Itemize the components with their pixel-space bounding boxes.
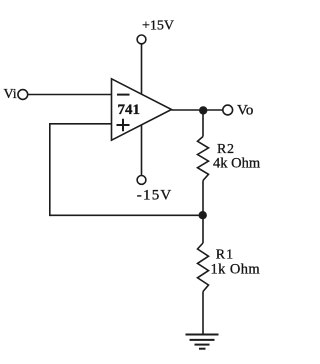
svg-text:-15V: -15V [137,188,173,204]
resistor R2 [198,137,209,181]
wire op-amp output to Vo terminal [172,109,223,111]
wire R2 bottom to feedback node [202,181,204,216]
junction output node [199,106,207,114]
svg-text:1k Ohm: 1k Ohm [211,262,261,278]
wire feedback node to left (bottom run) [50,214,203,216]
terminal Vi [18,90,28,100]
resistor R1 [198,243,209,292]
op-amp triangle body [112,79,172,140]
terminal Vo [223,105,233,115]
wire output node down to R2 [202,110,204,136]
wire op-amp V- pin to -15V terminal [141,125,143,176]
svg-text:Vo: Vo [237,103,253,119]
svg-text:4k Ohm: 4k Ohm [213,155,261,171]
ground [186,335,219,349]
svg-text:R1: R1 [216,248,234,263]
terminal +15V [137,35,146,44]
terminal -15V [137,176,146,185]
op-amp U1 741 [112,79,172,140]
wire +15V terminal to op-amp V+ pin [141,44,143,94]
wire R1 bottom to ground [202,292,204,335]
inverting input minus sign [117,94,130,96]
wire feedback left vertical run [49,124,51,216]
non-inverting input plus sign [117,119,130,132]
svg-text:Vi: Vi [4,87,17,102]
wire feedback to non-inverting input [49,123,112,125]
junction feedback node [199,211,207,219]
wire feedback node down to R1 [202,215,204,243]
wire Vi terminal to inverting input [28,94,112,96]
svg-text:741: 741 [118,102,141,118]
svg-text:+15V: +15V [142,19,174,34]
